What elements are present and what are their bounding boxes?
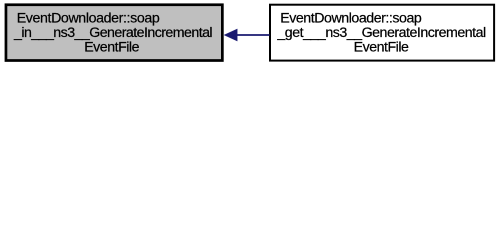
arrowhead bbox=[224, 29, 237, 41]
node: EventDownloader::soap_in___ns3__GenerateIncrementalEventFile (current, grey) bbox=[6, 5, 222, 61]
svg-text:EventFile: EventFile bbox=[84, 40, 139, 56]
svg-text:EventFile: EventFile bbox=[354, 40, 409, 56]
wire: edge shaft bbox=[237, 34, 270, 36]
node: EventDownloader::soap_get___ns3__GenerateIncrementalEventFile bbox=[270, 5, 494, 61]
edge: caller arrow (right node calls left node) bbox=[224, 29, 270, 41]
